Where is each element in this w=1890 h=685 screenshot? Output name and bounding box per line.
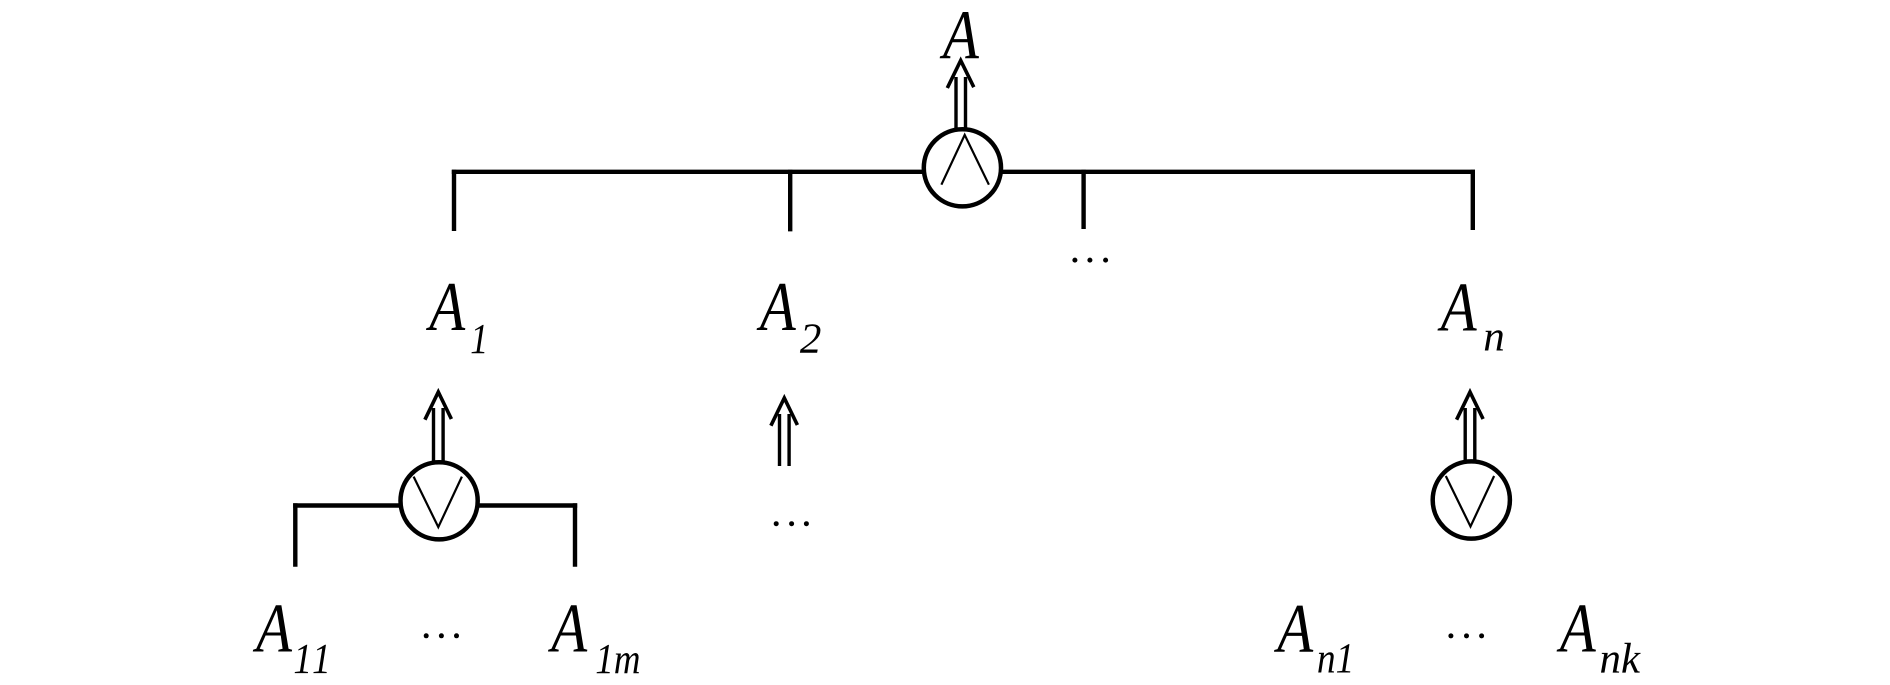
ellipsis between top-level branches [1072, 258, 1108, 263]
OR symbol (vee) inside left circle [414, 477, 462, 527]
node label An (letter) [1438, 284, 1477, 330]
wire: left subtree horizontal connector under OR gate [293, 503, 577, 507]
node label A11 (letter) [253, 605, 292, 651]
subscript nk of Ank [1601, 643, 1641, 673]
arrow from AND gate to A (double shaft, open head) [947, 61, 974, 131]
wire main horizontal [452, 170, 1475, 174]
node label A1m (letter) [548, 605, 587, 651]
node label A (root) [940, 12, 979, 58]
subscript n of An [1485, 330, 1503, 350]
subscript n1 of An1 [1318, 644, 1350, 672]
node label Ank (letter) [1557, 605, 1596, 651]
ellipsis below right OR gate [1448, 633, 1484, 638]
wire drop right (to A1m) [573, 503, 577, 566]
subscript 1m of A1m [597, 645, 639, 673]
node label An1 (letter) [1274, 606, 1313, 652]
wire drop 4 (to An) [1471, 170, 1475, 230]
arrow from right OR gate to An [1457, 392, 1484, 461]
node label A1 (letter) [426, 284, 465, 330]
ellipsis below left OR gate children [424, 633, 459, 638]
wire drop 2 (to A2) [788, 170, 792, 232]
subscript 1 of A1 [472, 325, 485, 353]
OR gate circle left (disjunction) [401, 462, 478, 539]
wire drop 1 (to A1) [452, 170, 456, 231]
ellipsis below A2 arrow [774, 521, 809, 526]
subscript 2 of A2 [800, 324, 821, 352]
node label A2 (letter) [757, 284, 796, 330]
OR gate circle right (disjunction) [1433, 461, 1510, 538]
wire drop 3 (to ellipsis) [1081, 170, 1085, 229]
arrow above middle ellipsis to A2 [771, 398, 798, 466]
wire drop left (to A11) [293, 503, 297, 566]
subscript 11 of A11 [295, 645, 327, 673]
arrow from left OR gate to A1 [425, 392, 452, 461]
AND symbol (wedge) inside top circle [941, 135, 989, 185]
OR symbol (vee) inside right circle [1446, 476, 1494, 527]
AND gate circle (conjunction) [924, 129, 1001, 206]
